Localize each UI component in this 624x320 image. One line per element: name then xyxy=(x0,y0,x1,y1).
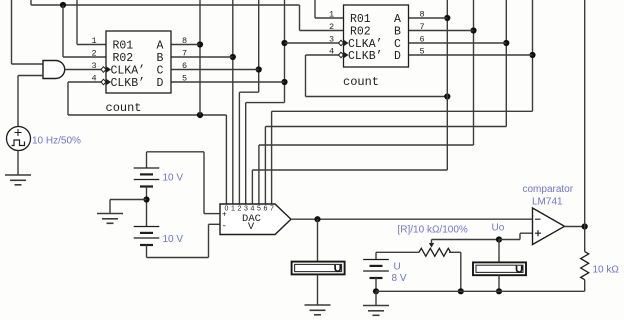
svg-text:CLKA’: CLKA’ xyxy=(111,65,146,78)
wire counter2 CLKB feedback vertical xyxy=(305,55,307,97)
wire DAC input 7 drop xyxy=(271,111,273,204)
DAC input pin 0 xyxy=(225,203,227,205)
wire AND gate output to counter1 CLKA pin 3 xyxy=(65,69,101,71)
wire net D1 to counter2 CLKA pin 3 xyxy=(285,42,339,44)
wire net D2 vertical from top xyxy=(532,0,534,111)
wire AND gate input 1 horizontal xyxy=(12,63,44,65)
wire net to AND gate input 1 (vertical from top edge) xyxy=(11,0,13,64)
svg-text:Uo: Uo xyxy=(492,223,505,234)
svg-text:3: 3 xyxy=(329,35,334,45)
wire counter1 output D stub xyxy=(171,81,285,83)
svg-text:comparator: comparator xyxy=(523,184,574,195)
voltmeter U5 (DAC output) xyxy=(292,262,345,275)
wire voltmeter U6 bottom lead xyxy=(498,275,500,291)
wire counter1 R01 drop from top xyxy=(76,0,78,45)
counter U2 body xyxy=(344,5,409,67)
wire net C2 horizontal to DAC input 6 xyxy=(265,126,506,128)
svg-text:6: 6 xyxy=(182,61,187,71)
wire net B1 vertical to DAC input 1 xyxy=(232,0,234,204)
wire counter1 R02 drop xyxy=(62,5,64,57)
svg-text:10 kΩ: 10 kΩ xyxy=(593,265,620,276)
wire counter2 R01 drop from top xyxy=(314,0,316,18)
svg-text:6: 6 xyxy=(420,35,425,45)
wire DAC input 4 drop xyxy=(251,170,253,204)
junction battery V4 on ground rail xyxy=(373,288,379,294)
svg-text:4: 4 xyxy=(250,206,254,213)
svg-text:10 V: 10 V xyxy=(163,234,184,245)
DAC input pin 6 xyxy=(264,203,266,205)
svg-text:2: 2 xyxy=(329,22,334,32)
potentiometer R2 body xyxy=(419,248,451,256)
DAC input pin 5 xyxy=(258,203,260,205)
svg-text:1: 1 xyxy=(92,36,97,46)
wire net C1 vertical from top xyxy=(258,0,260,92)
svg-text:1: 1 xyxy=(231,206,235,213)
svg-text:[R]/10 kΩ/100%: [R]/10 kΩ/100% xyxy=(398,225,468,236)
svg-text:1: 1 xyxy=(329,10,334,20)
wire counter1 CLKB pin 4 feedback vertical xyxy=(67,82,69,115)
wire DAC input 2 drop xyxy=(238,92,240,204)
svg-text:R02: R02 xyxy=(350,26,371,39)
svg-text:D: D xyxy=(157,77,164,90)
svg-text:5: 5 xyxy=(257,206,261,213)
wire counter2 output D stub xyxy=(409,54,533,56)
wire resistor to ground rail xyxy=(584,280,586,292)
junction counter1 output C xyxy=(256,66,262,72)
ground for reference batteries xyxy=(97,214,123,224)
U1 clock pin symbol CLKA xyxy=(101,67,106,73)
wire from top edge at x=31 xyxy=(30,0,32,5)
wire voltmeter U5 bottom lead xyxy=(317,274,319,305)
junction voltmeter U6 on ground rail xyxy=(496,288,502,294)
U2 clock pin symbol CLKB xyxy=(339,52,344,58)
wire counter2 R01 stub xyxy=(315,17,344,19)
svg-text:CLKB’: CLKB’ xyxy=(348,50,383,63)
wire net C2 vertical from top xyxy=(505,0,507,127)
ground for battery V4 xyxy=(375,291,377,305)
junction counter1 output B xyxy=(230,54,236,60)
svg-text:7: 7 xyxy=(270,206,274,213)
wire node Uo to comparator non-inverting input xyxy=(499,239,520,241)
wire net B2 horizontal to DAC input 5 xyxy=(259,144,474,146)
svg-text:4: 4 xyxy=(92,74,97,84)
potentiometer wiper arrow xyxy=(429,243,434,248)
DAC input pin 2 xyxy=(238,203,240,205)
svg-text:3: 3 xyxy=(92,61,97,71)
svg-text:5: 5 xyxy=(420,47,425,57)
junction counter2 output D xyxy=(529,52,535,58)
svg-text:B: B xyxy=(394,26,401,39)
wire counter1 CLKB pin 4 stub xyxy=(68,81,101,83)
svg-text:8 V: 8 V xyxy=(392,273,407,284)
wire counter1 output A stub xyxy=(171,44,200,46)
svg-text:7: 7 xyxy=(420,22,425,32)
svg-text:-: - xyxy=(222,222,227,232)
svg-text:5: 5 xyxy=(182,74,187,84)
wire DAC output to comparator inverting input xyxy=(291,218,533,220)
svg-text:D: D xyxy=(394,50,401,63)
svg-text:R02: R02 xyxy=(113,52,134,65)
ground for voltmeter U5 xyxy=(305,305,331,315)
svg-text:4: 4 xyxy=(329,47,334,57)
junction counter2 output B xyxy=(470,27,476,33)
svg-text:R01: R01 xyxy=(113,40,134,53)
svg-text:10 Hz/50%: 10 Hz/50% xyxy=(32,136,81,147)
wire battery midpoint node xyxy=(146,187,148,227)
wire counter2 output A stub xyxy=(409,17,448,19)
battery V2 10V xyxy=(134,168,160,187)
wire DAC input 5 drop xyxy=(258,145,260,204)
ground for clock source xyxy=(5,175,31,185)
wire midpoint to ground xyxy=(110,199,147,201)
wire DAC input 3 drop xyxy=(245,103,247,204)
DAC input pin 1 xyxy=(232,203,234,205)
wire DAC input 0 drop xyxy=(225,115,227,204)
wire AND gate input 2 from clock xyxy=(17,76,19,127)
wire ground rail xyxy=(376,290,585,292)
wire comparator output xyxy=(565,226,585,228)
wire potentiometer wiper to node Uo xyxy=(431,240,433,244)
wire battery V4 negative to ground rail xyxy=(375,278,377,291)
battery V4 8V xyxy=(363,260,389,279)
svg-text:3: 3 xyxy=(244,206,248,213)
junction net A1 at x=200 xyxy=(197,112,203,118)
DAC input pin 7 xyxy=(271,203,273,205)
junction counter1 output D xyxy=(281,79,287,85)
junction counter2 output A xyxy=(444,15,450,21)
svg-text:6: 6 xyxy=(263,206,267,213)
battery V3 10V xyxy=(134,227,160,246)
wire net A2 horizontal to DAC input 4 xyxy=(252,169,447,171)
svg-text:V: V xyxy=(248,221,255,233)
svg-text:8: 8 xyxy=(182,36,187,46)
junction counter1 output A xyxy=(197,41,203,47)
wire counter2 R02 stub xyxy=(300,30,344,32)
wire counter2 output C stub xyxy=(409,42,507,44)
svg-text:A: A xyxy=(394,13,401,26)
junction net A2 feedback xyxy=(444,93,450,99)
wire counter2 R02 drop xyxy=(299,5,301,31)
DAC input pin 4 xyxy=(251,203,253,205)
wire DAC input 6 drop xyxy=(264,127,266,205)
svg-text:count: count xyxy=(343,75,379,89)
wire battery V3 negative to DAC minus xyxy=(146,245,148,258)
wire potentiometer left lead to battery V4 xyxy=(376,251,419,253)
wire net D2 horizontal to DAC input 7 xyxy=(272,110,533,112)
wire net D1 jog horizontal xyxy=(246,102,285,104)
wire reset bus horizontal y=5 xyxy=(31,4,300,6)
svg-text:count: count xyxy=(106,101,142,115)
junction reset bus xyxy=(60,2,66,8)
wire net A2 vertical from top xyxy=(446,0,448,170)
U2 clock pin symbol CLKA xyxy=(339,40,344,46)
junction counter2 output C xyxy=(503,40,509,46)
resistor R1 10k xyxy=(581,252,589,280)
svg-text:C: C xyxy=(157,65,164,78)
U1 clock pin symbol CLKB xyxy=(101,79,106,85)
wire net C1 jog horizontal xyxy=(239,91,258,93)
wire counter1 output B stub xyxy=(171,56,233,58)
op-amp U7 LM741 comparator xyxy=(533,208,565,245)
voltmeter U6 (Uo) xyxy=(473,262,526,275)
junction node Uo xyxy=(496,236,502,242)
AND gate U3 xyxy=(43,61,65,79)
svg-text:2: 2 xyxy=(92,49,97,59)
wire counter2 CLKB pin 4 stub xyxy=(306,54,339,56)
wire net B2 vertical from top xyxy=(473,0,475,145)
wire counter1 R02 stub xyxy=(63,56,106,58)
wire comparator output net vertical from top xyxy=(584,0,586,252)
svg-text:2: 2 xyxy=(237,206,241,213)
wire counter1 R01 stub xyxy=(77,44,106,46)
junction battery midpoint xyxy=(143,196,149,202)
junction potentiometer right on ground rail xyxy=(458,288,464,294)
wire battery V2 positive to DAC plus xyxy=(146,152,148,168)
junction comparator output xyxy=(582,223,588,229)
wire counter2 output B stub xyxy=(409,30,474,32)
svg-text:7: 7 xyxy=(182,49,187,59)
wire net A2 feedback horizontal xyxy=(306,96,448,98)
svg-text:+: + xyxy=(222,210,227,220)
DAC U4 body xyxy=(220,204,291,235)
wire net D1 vertical from top xyxy=(284,0,286,103)
junction DAC output to voltmeter U5 xyxy=(314,216,320,222)
wire net A1 vertical from top xyxy=(199,0,201,115)
wire voltmeter U6 top lead xyxy=(498,240,500,263)
wire clock to ground xyxy=(17,151,19,176)
junction net D1 to counter2 clock xyxy=(281,40,287,46)
clock source V1 10Hz xyxy=(7,127,31,151)
svg-text:U: U xyxy=(394,262,401,273)
counter U1 body xyxy=(106,31,171,93)
wire net A1 horizontal to DAC input 0 xyxy=(68,114,226,116)
svg-text:CLKB’: CLKB’ xyxy=(111,77,146,90)
svg-text:R01: R01 xyxy=(350,13,371,26)
DAC input pin 3 xyxy=(245,203,247,205)
wire counter1 output C stub xyxy=(171,69,259,71)
svg-text:A: A xyxy=(157,40,164,53)
wire voltmeter U5 top lead xyxy=(317,219,319,261)
svg-text:10 V: 10 V xyxy=(163,173,184,184)
svg-text:8: 8 xyxy=(420,10,425,20)
svg-text:LM741: LM741 xyxy=(532,197,563,208)
wire potentiometer right lead xyxy=(449,251,461,253)
svg-text:B: B xyxy=(157,52,164,65)
